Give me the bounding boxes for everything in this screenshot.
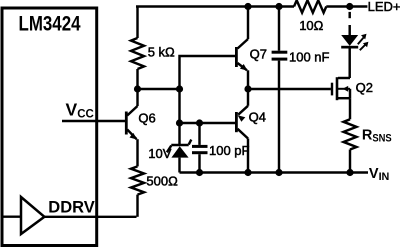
- svg-text:100 pF: 100 pF: [209, 143, 250, 158]
- svg-text:Q2: Q2: [356, 80, 373, 95]
- svg-text:LM3424: LM3424: [19, 12, 81, 35]
- svg-text:10V: 10V: [148, 146, 171, 161]
- svg-text:LED+: LED+: [368, 0, 400, 14]
- svg-text:Q7: Q7: [250, 47, 267, 62]
- svg-text:Q4: Q4: [249, 110, 266, 125]
- svg-text:500Ω: 500Ω: [146, 174, 178, 189]
- svg-text:5 kΩ: 5 kΩ: [148, 45, 175, 60]
- svg-text:Q6: Q6: [138, 110, 155, 125]
- svg-text:10Ω: 10Ω: [299, 18, 323, 33]
- svg-text:100 nF: 100 nF: [289, 50, 330, 65]
- svg-text:DDRV: DDRV: [48, 199, 94, 217]
